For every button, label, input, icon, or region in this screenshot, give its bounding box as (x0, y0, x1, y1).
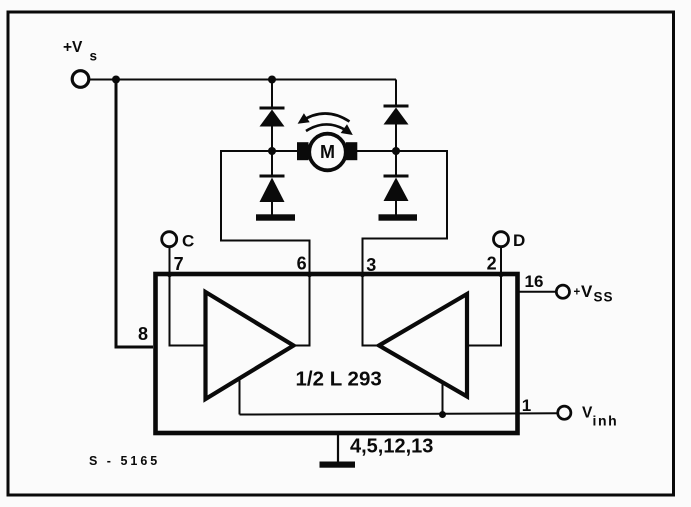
wire IC ground stub (337, 434, 339, 462)
wire node C to motor left brush (272, 150, 298, 152)
wire top rail to top-right diode cathode (395, 80, 397, 107)
wire top-left diode anode to node C (271, 126, 273, 151)
svg-text:V: V (582, 405, 593, 422)
wire motor right brush to node D (357, 150, 396, 152)
terminal C (162, 232, 195, 251)
terminal Vinh (558, 405, 619, 429)
node pin 7 entry (167, 272, 172, 277)
wire left driver output to pin 6 (294, 276, 310, 346)
node A (junction on +Vs rail) (112, 76, 120, 84)
wire top rail node A to node B (116, 79, 272, 81)
wire bottom-right diode anode to ground (395, 201, 397, 216)
node pin 3 entry (360, 272, 365, 277)
wire pin 16 to +Vss terminal (520, 291, 557, 293)
wire +Vs terminal to node A (89, 79, 116, 81)
wire left driver enable to Vinh line (239, 379, 241, 415)
svg-text:SS: SS (594, 290, 614, 305)
node D (motor right terminal) (392, 147, 400, 155)
diode top-left (flyback to +Vs) (260, 108, 285, 127)
wire right driver enable to Vinh line (442, 383, 444, 415)
node C (motor left terminal) (268, 147, 276, 155)
wire terminal C to pin 7 (169, 247, 171, 275)
terminal +Vs (63, 39, 97, 87)
wire node C to bottom-left diode cathode (271, 151, 273, 176)
diode bottom-right (flyback to ground) (384, 176, 409, 201)
svg-text:V: V (581, 282, 593, 301)
ground (left diode) (256, 214, 295, 220)
svg-text:s: s (90, 49, 98, 64)
wire pin 3 to right driver output (363, 276, 380, 346)
svg-text:S - 5165: S - 5165 (89, 454, 160, 468)
node pin 6 entry (307, 272, 312, 277)
wire bottom-left diode anode to ground (271, 202, 273, 216)
svg-text:+: + (574, 286, 581, 298)
wire node D to pin 3 (363, 151, 448, 274)
wire node B to top-left diode cathode (271, 80, 273, 109)
wire top rail node B to right diode column (272, 79, 396, 81)
driver triangle right (379, 294, 467, 397)
svg-text:6: 6 (297, 254, 307, 274)
terminal D (494, 231, 526, 250)
wire node C to pin 6 (221, 151, 310, 274)
ground (IC pins 4,5,12,13) (320, 462, 356, 468)
svg-text:4,5,12,13: 4,5,12,13 (350, 436, 433, 458)
wire node A down to pin 8 (116, 80, 153, 348)
rotation arrow upper (counter-clockwise) (298, 113, 350, 123)
driver triangle left (206, 292, 294, 399)
wire pin 7 to left driver input (170, 276, 206, 346)
node B (junction above left diode) (268, 76, 276, 84)
svg-text:7: 7 (174, 254, 184, 274)
wire top-right diode anode to node D (395, 124, 397, 151)
svg-text:1/2 L 293: 1/2 L 293 (296, 368, 382, 391)
wire pin 2 to right driver input (467, 276, 501, 346)
wire terminal D to pin 2 (500, 247, 502, 275)
op-amp U1 box (1/2 L293) (156, 274, 518, 433)
svg-text:8: 8 (138, 324, 148, 344)
svg-text:D: D (513, 231, 525, 250)
node pin 2 entry (498, 272, 503, 277)
svg-text:inh: inh (593, 413, 619, 429)
rotation arrow lower (clockwise) (306, 124, 353, 135)
ground (right diode) (379, 214, 418, 220)
svg-text:+V: +V (63, 39, 83, 56)
svg-text:M: M (320, 142, 335, 162)
motor M (297, 134, 357, 171)
svg-text:1: 1 (522, 396, 531, 415)
node E (enable junction on Vinh line) (439, 411, 446, 418)
diode bottom-left (flyback to ground) (260, 176, 285, 202)
wire node D to bottom-right diode cathode (395, 151, 397, 176)
terminal +Vss (556, 282, 613, 305)
wire Vinh line (pin 1) (240, 413, 558, 414)
diode top-right (flyback to +Vs) (384, 106, 409, 125)
svg-text:2: 2 (487, 254, 497, 274)
svg-text:C: C (182, 232, 194, 251)
svg-text:16: 16 (525, 272, 544, 291)
